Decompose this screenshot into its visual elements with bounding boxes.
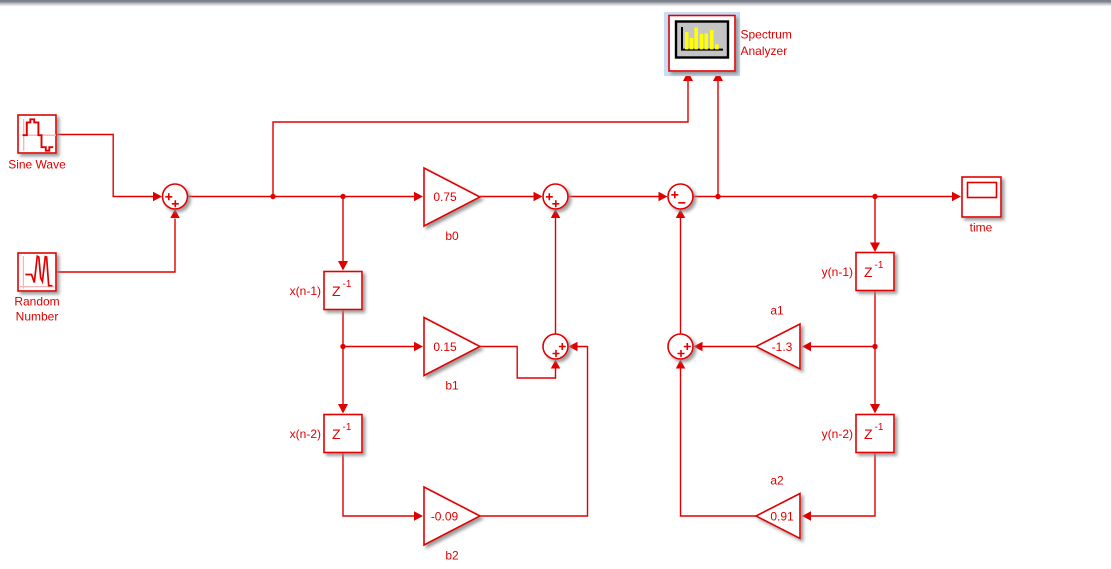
svg-text:Number: Number <box>16 310 59 324</box>
wire a2 to Sum5 <box>681 369 757 517</box>
svg-text:b1: b1 <box>445 379 459 393</box>
svg-text:Z: Z <box>864 426 873 442</box>
wire b1 to Sum4 <box>480 347 556 379</box>
arrow into a1 <box>802 342 811 351</box>
svg-text:Random: Random <box>14 295 59 309</box>
svg-text:a1: a1 <box>770 304 784 318</box>
arrow into Sum4 south <box>551 360 560 369</box>
svg-text:Analyzer: Analyzer <box>741 44 788 58</box>
wire Sum5 to Sum3 <box>680 218 682 334</box>
svg-text:Sine Wave: Sine Wave <box>8 158 66 172</box>
wire Sine Wave to Sum1 <box>57 135 154 197</box>
junction dot 4 <box>872 194 877 199</box>
delay x(n-2) <box>324 415 362 453</box>
sum S1 <box>163 184 188 209</box>
arrow into x(n-1) <box>338 261 348 271</box>
top window edge bar <box>0 2 1112 7</box>
svg-text:-1: -1 <box>875 260 884 271</box>
junction dot 6 <box>872 344 877 349</box>
junction dot 2 <box>340 194 345 199</box>
arrow into Sum5 east <box>694 342 703 351</box>
arrow into Sum1 west <box>153 192 162 201</box>
wire branch to b1 <box>343 346 415 348</box>
arrow into Sum5 south <box>676 360 685 369</box>
junction dot 5 <box>340 344 345 349</box>
svg-text:x(n-1): x(n-1) <box>290 284 321 298</box>
svg-text:-1.3: -1.3 <box>772 340 793 354</box>
scope Spectrum Analyzer <box>669 16 735 72</box>
wire branch to y(n-1) <box>874 197 876 244</box>
svg-text:b0: b0 <box>445 229 459 243</box>
gain b2 <box>424 487 480 545</box>
svg-text:time: time <box>970 221 993 235</box>
delay x(n-1) <box>324 272 362 310</box>
right window edge <box>1111 0 1112 569</box>
wire Sum2 to Sum3 <box>568 196 659 198</box>
svg-text:b2: b2 <box>445 549 459 563</box>
sum S2 <box>543 184 568 209</box>
block Random Number <box>18 253 56 291</box>
wire b2 to Sum4 <box>480 347 588 517</box>
arrow into Sum2 south <box>551 209 560 218</box>
svg-text:0.75: 0.75 <box>433 190 457 204</box>
wire x(n-2) to b2 <box>343 453 415 517</box>
wire a1 to Sum5 <box>703 346 757 348</box>
svg-text:a2: a2 <box>770 474 784 488</box>
arrow into b1 <box>414 342 423 351</box>
svg-text:Spectrum: Spectrum <box>741 28 792 42</box>
arrow into b2 <box>414 511 423 520</box>
junction dot 1 <box>270 194 275 199</box>
block Sine Wave <box>18 115 56 153</box>
svg-text:y(n-1): y(n-1) <box>822 265 853 279</box>
wire y(n-2) to a2 <box>811 453 875 517</box>
arrow into Sum4 east <box>569 342 578 351</box>
svg-text:-1: -1 <box>343 422 352 433</box>
svg-text:Z: Z <box>864 264 873 280</box>
sum S3 <box>668 184 693 209</box>
arrow into Sum3 west <box>659 192 668 201</box>
wire branch to x(n-1) <box>342 197 344 263</box>
svg-text:x(n-2): x(n-2) <box>290 427 321 441</box>
arrow into y(n-1) <box>870 243 880 253</box>
wire junction to a1 <box>811 346 875 348</box>
gain b1 <box>424 318 480 376</box>
svg-text:Z: Z <box>332 426 341 442</box>
gain b0 <box>424 168 480 226</box>
arrow into Sum1 south <box>170 209 179 218</box>
arrow into b0 <box>414 192 423 201</box>
svg-text:0.15: 0.15 <box>433 340 457 354</box>
arrow into Sum2 west <box>534 192 543 201</box>
arrow into a2 <box>802 511 811 520</box>
scope time <box>962 177 1001 217</box>
wire x(n-1) to x(n-2) <box>342 310 344 406</box>
wire Sum3 to time <box>693 196 953 198</box>
wire Sum1 to b0 <box>188 196 415 198</box>
wire b0 to Sum2 <box>480 196 534 198</box>
delay y(n-2) <box>856 415 894 453</box>
gain a2 <box>756 494 800 539</box>
arrow into y(n-2) <box>870 404 880 414</box>
svg-text:-1: -1 <box>875 422 884 433</box>
arrow into x(n-2) <box>338 404 348 414</box>
arrow into time <box>952 192 961 201</box>
svg-text:-0.09: -0.09 <box>431 510 459 524</box>
svg-text:0.91: 0.91 <box>770 510 794 524</box>
delay y(n-1) <box>856 253 894 291</box>
sum S4 <box>543 334 568 359</box>
arrow into Sum3 south <box>676 209 685 218</box>
wire y(n-1) to y(n-2) <box>874 291 876 406</box>
sum S5 <box>668 334 693 359</box>
arrow into Spectrum input2 <box>713 72 723 82</box>
wire branch to Spectrum input2 <box>717 81 719 197</box>
wire Sum4 to Sum2 <box>555 218 557 334</box>
wire branch to Spectrum input1 <box>273 81 688 197</box>
svg-text:-1: -1 <box>343 279 352 290</box>
svg-text:Z: Z <box>332 283 341 299</box>
gain a1 <box>756 324 800 369</box>
arrow into Spectrum input1 <box>683 72 693 82</box>
junction dot 3 <box>715 194 720 199</box>
scope Spectrum Analyzer selection highlight <box>664 12 740 76</box>
wire Random Number to Sum1 <box>57 219 176 273</box>
svg-text:y(n-2): y(n-2) <box>822 427 853 441</box>
